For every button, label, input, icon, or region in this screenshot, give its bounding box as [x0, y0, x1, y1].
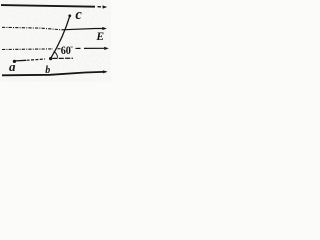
svg-text:E: E [95, 31, 104, 43]
svg-text:a: a [9, 59, 16, 74]
wire: bottom boundary line with right arrow [2, 70, 108, 75]
wire: dashed line a to b [27, 59, 45, 60]
node c point [68, 14, 71, 17]
wire: line from a, solid lead-out [16, 59, 27, 62]
angle arc at b [54, 52, 58, 58]
node a point [13, 60, 16, 63]
svg-text:b: b [45, 65, 50, 76]
wire: top boundary line with right arrow [1, 5, 107, 9]
wire: middle field line E (dash-dot left, solid right, arrow) [2, 27, 107, 30]
wire: slanted ray b to c (slightly bowed scan line) [51, 16, 70, 58]
svg-text:c: c [75, 7, 82, 23]
wire: dash-dot axis line with right arrow [2, 47, 109, 50]
wire: dashed line right of b [52, 57, 73, 59]
node b point [49, 57, 52, 60]
